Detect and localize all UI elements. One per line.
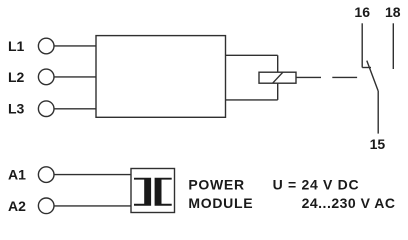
- svg-text:A2: A2: [8, 198, 26, 214]
- svg-text:15: 15: [370, 136, 386, 152]
- svg-text:L3: L3: [8, 101, 25, 117]
- svg-text:16: 16: [354, 4, 370, 20]
- svg-text:MODULE: MODULE: [188, 195, 253, 211]
- svg-text:L2: L2: [8, 69, 25, 85]
- svg-text:24...230 V AC: 24...230 V AC: [302, 195, 396, 211]
- svg-text:L1: L1: [8, 38, 25, 54]
- svg-text:U = 24 V DC: U = 24 V DC: [273, 176, 360, 192]
- svg-text:18: 18: [385, 4, 401, 20]
- svg-text:A1: A1: [8, 167, 26, 183]
- svg-text:POWER: POWER: [188, 176, 244, 192]
